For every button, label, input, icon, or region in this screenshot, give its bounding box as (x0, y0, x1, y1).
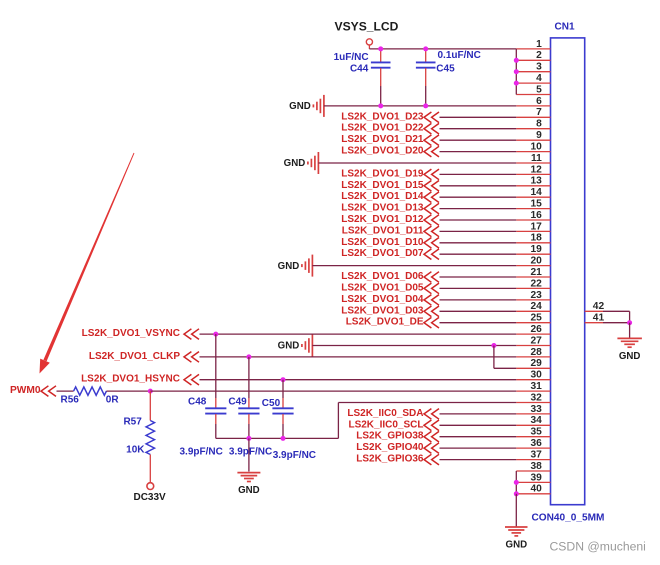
svg-text:15: 15 (530, 199, 542, 210)
svg-text:40: 40 (530, 484, 542, 495)
svg-text:28: 28 (530, 347, 542, 358)
svg-text:32: 32 (530, 392, 542, 403)
svg-text:LS2K_DVO1_D20: LS2K_DVO1_D20 (341, 146, 424, 157)
svg-text:LS2K_GPIO38: LS2K_GPIO38 (356, 431, 424, 442)
svg-text:33: 33 (530, 404, 542, 415)
svg-text:30: 30 (530, 370, 542, 381)
svg-text:36: 36 (530, 438, 542, 449)
svg-text:LS2K_DVO1_HSYNC: LS2K_DVO1_HSYNC (81, 374, 180, 385)
svg-text:C50: C50 (262, 398, 281, 409)
svg-text:29: 29 (530, 358, 542, 369)
svg-text:DC33V: DC33V (133, 492, 166, 503)
svg-text:LS2K_DVO1_D23: LS2K_DVO1_D23 (341, 111, 424, 122)
svg-text:LS2K_DVO1_D13: LS2K_DVO1_D13 (341, 203, 424, 214)
svg-text:3.9pF/NC: 3.9pF/NC (273, 450, 316, 461)
svg-text:LS2K_GPIO36: LS2K_GPIO36 (356, 454, 424, 465)
svg-text:11: 11 (531, 153, 542, 164)
svg-text:GND: GND (289, 101, 311, 112)
svg-text:35: 35 (530, 427, 542, 438)
svg-text:LS2K_DVO1_CLKP: LS2K_DVO1_CLKP (89, 351, 180, 362)
svg-text:CN1: CN1 (555, 21, 575, 32)
svg-text:CON40_0_5MM: CON40_0_5MM (532, 513, 605, 524)
svg-text:4: 4 (536, 73, 542, 84)
svg-text:14: 14 (530, 187, 542, 198)
svg-text:R56: R56 (61, 395, 80, 406)
svg-text:34: 34 (530, 415, 542, 426)
svg-text:9: 9 (536, 130, 542, 141)
svg-text:31: 31 (530, 381, 542, 392)
svg-text:25: 25 (530, 313, 542, 324)
svg-text:GND: GND (238, 485, 260, 496)
svg-text:LS2K_IIC0_SCL: LS2K_IIC0_SCL (348, 419, 423, 430)
svg-text:GND: GND (278, 341, 300, 352)
svg-text:41: 41 (593, 313, 605, 324)
svg-text:LS2K_DVO1_D04: LS2K_DVO1_D04 (341, 294, 424, 305)
svg-text:39: 39 (530, 472, 542, 483)
svg-text:7: 7 (536, 107, 542, 118)
svg-text:3: 3 (536, 62, 542, 73)
svg-text:LS2K_DVO1_D11: LS2K_DVO1_D11 (342, 225, 424, 236)
svg-text:38: 38 (530, 461, 542, 472)
svg-text:23: 23 (530, 290, 542, 301)
svg-text:C45: C45 (436, 63, 455, 74)
svg-text:6: 6 (536, 96, 542, 107)
svg-text:LS2K_DVO1_D10: LS2K_DVO1_D10 (341, 237, 424, 248)
svg-text:10K: 10K (126, 444, 145, 455)
svg-text:LS2K_DVO1_D05: LS2K_DVO1_D05 (341, 282, 424, 293)
svg-text:21: 21 (530, 267, 542, 278)
svg-text:16: 16 (530, 210, 542, 221)
svg-text:LS2K_DVO1_D15: LS2K_DVO1_D15 (341, 180, 424, 191)
svg-text:LS2K_DVO1_D06: LS2K_DVO1_D06 (341, 271, 424, 282)
svg-text:R57: R57 (123, 416, 142, 427)
svg-text:LS2K_DVO1_D14: LS2K_DVO1_D14 (341, 191, 424, 202)
svg-text:GND: GND (284, 158, 306, 169)
svg-text:18: 18 (530, 233, 542, 244)
svg-text:LS2K_GPIO40: LS2K_GPIO40 (356, 442, 424, 453)
svg-text:10: 10 (530, 142, 542, 153)
svg-text:GND: GND (619, 351, 641, 362)
svg-text:22: 22 (530, 278, 542, 289)
svg-text:13: 13 (530, 176, 542, 187)
svg-text:C48: C48 (188, 396, 207, 407)
svg-text:1uF/NC: 1uF/NC (334, 52, 369, 63)
svg-text:GND: GND (278, 261, 300, 272)
svg-text:LS2K_DVO1_D21: LS2K_DVO1_D21 (341, 134, 424, 145)
svg-text:LS2K_DVO1_D22: LS2K_DVO1_D22 (341, 123, 424, 134)
svg-text:LS2K_DVO1_D12: LS2K_DVO1_D12 (341, 214, 424, 225)
svg-text:17: 17 (530, 221, 542, 232)
svg-text:0.1uF/NC: 0.1uF/NC (438, 50, 481, 61)
svg-text:C49: C49 (228, 396, 247, 407)
svg-text:2: 2 (536, 50, 542, 61)
svg-text:LS2K_DVO1_D19: LS2K_DVO1_D19 (341, 168, 424, 179)
svg-text:12: 12 (530, 164, 542, 175)
svg-text:GND: GND (506, 540, 528, 551)
svg-text:VSYS_LCD: VSYS_LCD (335, 19, 399, 33)
svg-text:26: 26 (530, 324, 542, 335)
svg-text:3.9pF/NC: 3.9pF/NC (229, 447, 272, 458)
svg-text:24: 24 (530, 301, 542, 312)
svg-text:PWM0: PWM0 (10, 385, 41, 396)
svg-text:LS2K_DVO1_D07: LS2K_DVO1_D07 (341, 248, 424, 259)
svg-text:LS2K_DVO1_VSYNC: LS2K_DVO1_VSYNC (82, 328, 180, 339)
svg-text:1: 1 (536, 39, 542, 50)
svg-text:3.9pF/NC: 3.9pF/NC (180, 447, 223, 458)
svg-text:LS2K_IIC0_SDA: LS2K_IIC0_SDA (347, 408, 423, 419)
svg-text:0R: 0R (106, 395, 120, 406)
svg-text:27: 27 (530, 335, 542, 346)
svg-text:5: 5 (536, 84, 542, 95)
svg-text:CSDN @mucheni: CSDN @mucheni (550, 539, 646, 553)
svg-text:42: 42 (593, 301, 605, 312)
svg-text:LS2K_DVO1_DE: LS2K_DVO1_DE (346, 317, 424, 328)
svg-text:20: 20 (530, 256, 542, 267)
svg-text:LS2K_DVO1_D03: LS2K_DVO1_D03 (341, 305, 424, 316)
svg-text:C44: C44 (350, 63, 369, 74)
svg-text:37: 37 (530, 450, 542, 461)
svg-text:8: 8 (536, 119, 542, 130)
svg-text:19: 19 (530, 244, 542, 255)
